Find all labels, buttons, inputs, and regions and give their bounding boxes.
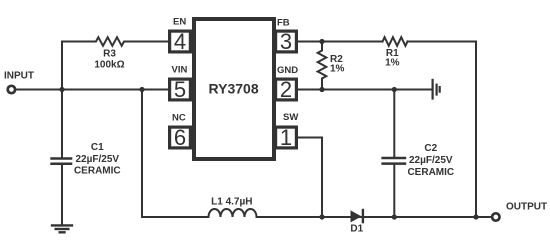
svg-text:3: 3 <box>280 29 292 54</box>
pin 1 box <box>276 127 297 148</box>
junction node rail/R1 <box>473 214 478 219</box>
capacitor C1 lead bottom <box>61 165 63 224</box>
capacitor C2 lead bottom <box>393 165 395 217</box>
junction node rail/C2 <box>392 214 397 219</box>
resistor R1 <box>383 37 408 46</box>
svg-text:R3: R3 <box>103 49 116 60</box>
svg-text:C2: C2 <box>424 143 437 154</box>
svg-text:OUTPUT: OUTPUT <box>506 201 547 212</box>
svg-text:22µF/25V: 22µF/25V <box>409 155 453 166</box>
svg-text:CERAMIC: CERAMIC <box>74 166 121 177</box>
svg-text:1%: 1% <box>385 58 400 69</box>
svg-text:L1 4.7µH: L1 4.7µH <box>211 197 252 208</box>
wire bottom rail right <box>257 216 492 218</box>
svg-text:CERAMIC: CERAMIC <box>407 167 454 178</box>
svg-text:RY3708: RY3708 <box>209 81 259 97</box>
diode D1 <box>351 209 363 224</box>
wire bottom rail left <box>142 216 209 218</box>
capacitor C1 lead top <box>61 90 63 158</box>
svg-text:6: 6 <box>174 125 186 150</box>
svg-text:VIN: VIN <box>172 65 188 76</box>
wire input to bottom rail <box>141 90 143 218</box>
terminal INPUT <box>8 86 15 93</box>
svg-text:5: 5 <box>174 77 186 102</box>
junction node rail/SW <box>319 214 324 219</box>
pin 6 box <box>170 127 191 148</box>
terminal OUTPUT <box>492 213 499 220</box>
svg-text:C1: C1 <box>91 142 104 153</box>
svg-text:4: 4 <box>174 29 186 54</box>
svg-text:D1: D1 <box>350 224 363 235</box>
pin 3 box <box>276 31 297 52</box>
inductor L1 <box>209 209 257 217</box>
wire GND pin2 <box>298 89 432 91</box>
capacitor C2 lead top <box>393 90 395 157</box>
ground symbol C1 <box>51 225 73 232</box>
svg-text:EN: EN <box>173 17 186 28</box>
svg-text:FB: FB <box>277 18 290 29</box>
junction node input/C1 <box>59 87 64 92</box>
pin 2 box <box>276 79 297 100</box>
capacitor C1 plates <box>50 159 72 164</box>
pin 4 box <box>170 31 191 52</box>
ground symbol right (rotated) <box>433 79 440 100</box>
junction node FB/R2 <box>319 39 324 44</box>
capacitor C2 plates <box>381 158 406 164</box>
svg-text:1: 1 <box>280 125 292 150</box>
wire R1 to right rail <box>408 42 477 218</box>
svg-text:NC: NC <box>172 113 186 124</box>
resistor R3 <box>62 37 168 46</box>
wire input horizontal <box>16 89 168 91</box>
wire R3 branch vertical <box>61 42 63 90</box>
wire SW pin1 <box>298 138 322 218</box>
svg-text:INPUT: INPUT <box>4 71 34 82</box>
svg-text:22µF/25V: 22µF/25V <box>76 154 120 165</box>
junction node GND/R2 <box>319 87 324 92</box>
svg-text:SW: SW <box>283 112 298 123</box>
svg-text:2: 2 <box>280 77 292 102</box>
svg-text:1%: 1% <box>330 64 345 75</box>
wire FB pin3 <box>298 41 383 43</box>
svg-text:100kΩ: 100kΩ <box>94 60 124 71</box>
svg-text:GND: GND <box>277 65 298 76</box>
junction node input/rail <box>139 87 144 92</box>
resistor R2 <box>318 42 327 90</box>
junction node GND/C2 <box>392 87 397 92</box>
pin 5 box <box>170 79 191 100</box>
IC U1 body <box>194 19 274 159</box>
